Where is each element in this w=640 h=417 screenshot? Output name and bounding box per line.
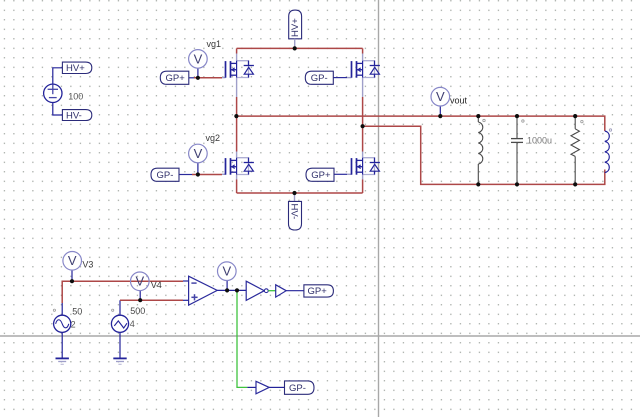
svg-text:GP-: GP- [289, 383, 306, 394]
voltage source V1 100V [44, 68, 63, 115]
wire: Q2 drain lead from node A [236, 116, 238, 158]
svg-text:vg2: vg2 [206, 133, 221, 143]
mosfet Q2 (bottom-left, low side) [226, 158, 254, 175]
buffer U3 [276, 285, 287, 297]
svg-text:GP+: GP+ [308, 286, 328, 297]
port tag GP- (driver output) [285, 381, 315, 394]
resistor R1 [571, 116, 583, 184]
wire: V3 node to V2 and op-amp inverting input [62, 281, 188, 303]
probe V3 [63, 251, 82, 281]
label V4 [151, 280, 162, 290]
wire: op-amp output node [217, 289, 246, 291]
port tag GP+ (Q4 gate) [306, 168, 334, 181]
wire: Q2 source lead to HV- rail [236, 175, 238, 194]
node: L1 bottom [476, 182, 480, 186]
svg-text:HV-: HV- [66, 110, 82, 121]
svg-text:GP+: GP+ [311, 170, 331, 181]
probe vg2 [189, 144, 208, 174]
node: V4 [138, 298, 142, 302]
node: HV- tap [292, 191, 296, 195]
inductor L1 [478, 116, 485, 184]
wire: Q4 drain lead from node B [362, 126, 364, 158]
op-amp U1 (comparator) [189, 276, 218, 305]
wire: node B rail to filter bottom rail [363, 126, 605, 184]
wire: HV+ top rail [237, 47, 363, 49]
ground (below V2) [56, 358, 69, 364]
svg-text:vout: vout [450, 96, 468, 106]
svg-text:GP-: GP- [311, 73, 328, 84]
wire: green net to lower buffer [237, 290, 247, 387]
svg-text:V3: V3 [82, 260, 93, 270]
label vout [450, 96, 468, 106]
probe vout [431, 87, 450, 116]
probe V4 (circle open, wire passes through) [131, 272, 150, 300]
buffer U4 [256, 381, 269, 394]
wire: buffer to GP+ output tag [286, 290, 304, 292]
label V3 [82, 260, 93, 270]
svg-text:HV+: HV+ [290, 18, 301, 37]
wire: inverter to buffer (green) [268, 290, 276, 292]
node: op-amp output probe [225, 288, 229, 292]
wire: Q4 source lead to HV- rail [362, 175, 364, 194]
probe vg1 [189, 50, 208, 78]
label 50 [72, 306, 82, 316]
designator 4 [130, 319, 135, 329]
wire: HV- bottom rail of bridge [237, 192, 363, 194]
node: V3 [70, 279, 74, 283]
source V2 sine 50 [53, 303, 71, 358]
port tag GP- (Q3 gate) [305, 71, 333, 84]
svg-text:100: 100 [68, 92, 83, 102]
svg-text:HV-: HV- [289, 204, 300, 220]
node: vg2 gate [196, 172, 200, 176]
node: C1 bottom [515, 182, 519, 186]
label vg1 [207, 39, 222, 49]
probe (op-amp output) [218, 262, 237, 290]
wire: GP+ tag to Q1 gate (net vg1) [189, 77, 226, 79]
label vg2 [206, 133, 221, 143]
port tag HV+ (top of bridge, vertical) [289, 10, 302, 48]
ground (below V4) [113, 358, 126, 364]
wire: Q3 drain lead from top rail [362, 48, 364, 60]
node: green net junction [235, 288, 239, 292]
svg-text:50: 50 [72, 306, 82, 316]
svg-text:4: 4 [130, 319, 135, 329]
port tag HV- (at V1) [62, 110, 91, 122]
capacitor C1 1000u [511, 116, 524, 184]
port tag HV- (below bridge, vertical) [289, 193, 302, 230]
node: R1 bottom [573, 182, 577, 186]
value label 1000u [527, 136, 552, 146]
wire: green to lower buffer input [247, 386, 256, 388]
wire: GP- tag to Q3 gate [333, 77, 351, 79]
node A (left bridge midpoint) [234, 114, 238, 118]
svg-text:GP+: GP+ [166, 73, 186, 84]
port tag GP+ (Q1 gate) [160, 71, 189, 84]
wire: V4 node to op-amp non-inverting input [120, 299, 189, 301]
designator 2 [71, 319, 76, 329]
node: vg1 gate [196, 76, 200, 80]
svg-text:HV+: HV+ [66, 63, 85, 74]
svg-text:500: 500 [130, 306, 145, 316]
node B (right bridge midpoint) [361, 124, 365, 128]
value label 100 [68, 92, 83, 102]
label 500 [130, 306, 145, 316]
node: HV+ tap [293, 46, 297, 50]
node: L1 top [476, 114, 480, 118]
wire: Q3 source lead down to node B [362, 78, 364, 127]
mosfet Q3 (top-right, high side) [352, 61, 380, 78]
svg-text:vg1: vg1 [207, 39, 222, 49]
wire: Q1 drain lead from top rail [236, 48, 238, 60]
svg-text:GP-: GP- [157, 170, 174, 181]
mosfet Q4 (bottom-right, low side) [352, 158, 380, 175]
mosfet Q1 (top-left, high side) [226, 61, 254, 78]
wire: Q1 source lead down to node A [236, 78, 238, 117]
port tag GP+ (driver output) [304, 285, 334, 297]
wire: buffer to GP- output tag [269, 386, 284, 388]
svg-text:V: V [135, 274, 144, 289]
svg-text:1000u: 1000u [527, 136, 552, 146]
svg-text:2: 2 [71, 319, 76, 329]
inductor L2 (load) [605, 129, 612, 173]
source V4 triangle 500 [111, 300, 128, 358]
wire: node A mid rail to output filter [236, 116, 604, 131]
node: vout tap [438, 114, 442, 118]
port tag HV+ (at V1) [62, 62, 91, 74]
wire: GP+ tag to Q4 gate [334, 173, 352, 175]
inverter U2 [246, 281, 268, 300]
wire: GP- tag to Q2 gate (net vg2) [179, 173, 226, 175]
node: R1 top [573, 114, 577, 118]
port tag GP- (Q2 gate) [151, 168, 179, 181]
node: C1 top [515, 114, 519, 118]
svg-text:V4: V4 [151, 280, 162, 290]
